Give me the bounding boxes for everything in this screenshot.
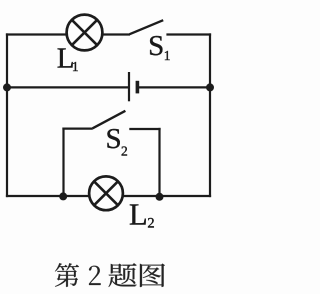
junction node: right of battery branch <box>206 83 214 91</box>
battery BT long plate (positive) <box>128 72 130 101</box>
wire: top segment lamp L1 to switch S1 <box>103 33 130 35</box>
lamp L2 cross <box>94 181 118 205</box>
caption char 图 <box>140 264 165 287</box>
wire: S2 branch right vertical <box>158 128 160 197</box>
caption char 题 <box>109 263 137 287</box>
lamp L1 circle <box>67 15 103 51</box>
junction node: bottom-left of S2/L2 loop <box>59 192 67 200</box>
svg-text:S: S <box>148 30 164 62</box>
switch S1 blade (open) <box>130 20 164 34</box>
junction node: bottom-right of S2/L2 loop <box>156 193 164 201</box>
wire: right vertical (outer loop) <box>209 33 211 197</box>
svg-text:1: 1 <box>72 59 79 74</box>
caption char 第 <box>55 263 79 287</box>
svg-text:S: S <box>106 123 122 155</box>
wire: top-right segment from S1 to corner <box>166 33 211 35</box>
wire: middle branch right of battery <box>138 86 210 88</box>
wire: S2 branch left horizontal <box>62 128 92 130</box>
wire: left vertical (outer loop) <box>6 33 8 197</box>
caption char 2 <box>89 266 101 285</box>
wire: middle branch left of battery <box>7 86 128 88</box>
junction node: left of battery branch <box>3 83 11 91</box>
wire: S2 branch right horizontal <box>129 128 160 130</box>
lamp L1 cross <box>72 20 97 45</box>
wire: S2 branch left vertical <box>62 128 64 197</box>
svg-text:2: 2 <box>121 144 128 159</box>
switch S2 blade (open) <box>93 111 126 129</box>
wire: bottom-left segment to lamp L2 <box>6 195 89 197</box>
wire: top-left segment to lamp L1 <box>6 33 66 35</box>
battery BT short plate (negative) <box>136 81 140 94</box>
svg-text:2: 2 <box>147 216 154 232</box>
lamp L2 circle <box>89 176 123 210</box>
svg-text:1: 1 <box>164 48 171 63</box>
svg-text:L: L <box>129 197 148 231</box>
wire: bottom-right segment from lamp L2 <box>123 195 211 197</box>
